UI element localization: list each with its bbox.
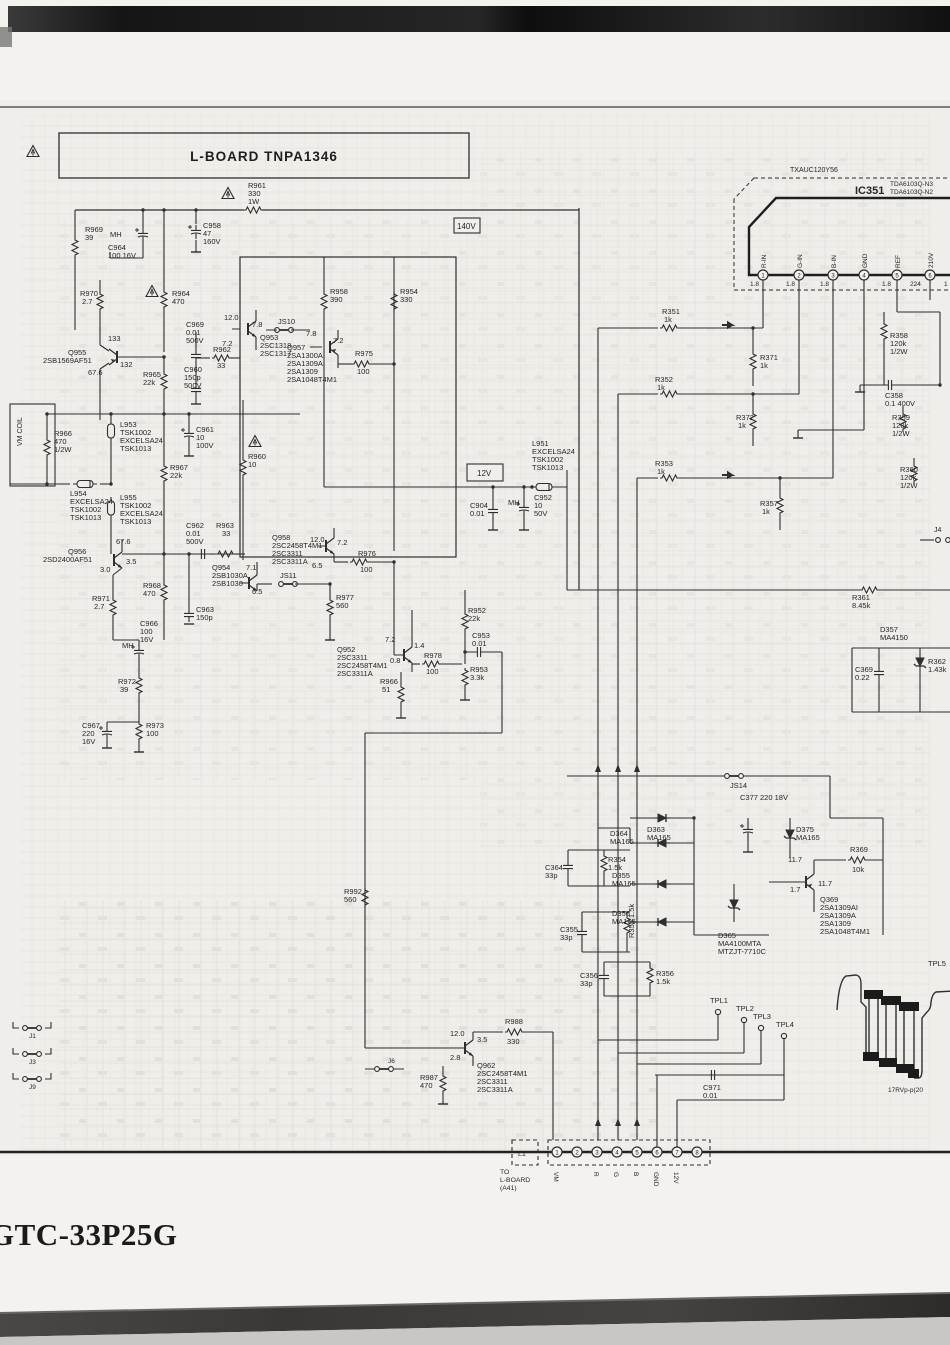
svg-text:J6: J6	[388, 1058, 395, 1065]
svg-text:67.6: 67.6	[88, 368, 103, 377]
svg-text:B: B	[632, 1172, 639, 1176]
svg-text:470: 470	[420, 1081, 433, 1090]
resistor R353	[640, 459, 833, 481]
svg-text:33p: 33p	[560, 933, 573, 942]
svg-text:2SA1048T4M1: 2SA1048T4M1	[820, 927, 870, 936]
svg-text:1.4: 1.4	[414, 641, 424, 650]
pin 2	[572, 1147, 582, 1157]
arrow on R351 wire	[722, 323, 732, 328]
pin 7 12V	[672, 1147, 682, 1184]
resistor R966b 51	[380, 672, 406, 718]
svg-text:22k: 22k	[143, 378, 155, 387]
inductor L951	[530, 439, 575, 491]
svg-text:1.8: 1.8	[882, 281, 891, 288]
svg-text:MA165: MA165	[796, 833, 820, 842]
svg-text:2SC3311A: 2SC3311A	[477, 1085, 513, 1094]
capacitor C355	[560, 912, 630, 952]
svg-text:TSK1013: TSK1013	[120, 444, 151, 453]
warning triangle mid	[249, 436, 261, 447]
svg-text:1/2W: 1/2W	[892, 429, 910, 438]
capacitor C358	[860, 380, 942, 408]
wire right box corner	[567, 470, 950, 590]
svg-text:160V: 160V	[203, 237, 221, 246]
svg-text:(A41): (A41)	[500, 1185, 517, 1192]
svg-text:22k: 22k	[468, 614, 480, 623]
resistor R355	[624, 904, 636, 952]
svg-text:500V: 500V	[186, 336, 204, 345]
wire upper box	[240, 257, 456, 557]
resistor R964	[161, 208, 190, 352]
svg-text:TDA6103Q-N2: TDA6103Q-N2	[890, 189, 933, 196]
wire pin7 up	[677, 1075, 784, 1147]
connector L1 box	[512, 1140, 538, 1165]
transistor Q957	[287, 330, 343, 384]
wire Q952 base vertical	[393, 562, 395, 655]
pin 2	[786, 254, 804, 288]
capacitor C369	[855, 648, 884, 712]
svg-text:100 16V: 100 16V	[108, 251, 136, 260]
svg-text:2SB1569AF51: 2SB1569AF51	[43, 356, 92, 365]
svg-text:TPL4: TPL4	[776, 1020, 794, 1029]
pin 4	[859, 253, 869, 280]
svg-text:MTZJT-7710C: MTZJT-7710C	[718, 947, 767, 956]
resistor R356	[647, 962, 674, 996]
test point TPL4	[776, 1020, 794, 1075]
svg-text:1.7: 1.7	[790, 885, 800, 894]
inductor L955	[108, 493, 163, 551]
diode D364	[598, 828, 694, 847]
svg-text:TXAUC120Y56: TXAUC120Y56	[790, 167, 838, 174]
svg-text:1W: 1W	[248, 197, 260, 206]
ground pin4	[793, 430, 803, 438]
wire node rail y484	[10, 483, 111, 485]
resistor R354	[601, 850, 626, 886]
svg-text:1.8: 1.8	[750, 281, 759, 288]
svg-text:1k: 1k	[657, 467, 665, 476]
svg-text:100: 100	[357, 367, 370, 376]
svg-text:12V: 12V	[477, 469, 492, 478]
schematic top frame line	[0, 106, 950, 108]
wire left rail drop	[74, 210, 76, 330]
resistor R962	[196, 345, 240, 370]
svg-text:1.8: 1.8	[786, 281, 795, 288]
svg-text:R355 1.5k: R355 1.5k	[627, 904, 636, 938]
jumper JS11	[257, 571, 330, 586]
capacitor C961	[181, 412, 214, 456]
pin 1 VM	[552, 1147, 562, 1182]
wire pin3 drop	[832, 280, 834, 478]
svg-text:2SA1048T4M1: 2SA1048T4M1	[287, 375, 337, 384]
svg-text:67.6: 67.6	[116, 537, 131, 546]
svg-text:7.8: 7.8	[252, 320, 262, 329]
arrow R line	[595, 764, 601, 772]
resistor R992	[344, 878, 368, 908]
svg-text:TSK1013: TSK1013	[532, 463, 563, 472]
svg-text:100: 100	[426, 667, 439, 676]
capacitor C967	[82, 721, 139, 748]
wire TPL4 bus	[655, 1074, 784, 1076]
svg-text:1k: 1k	[664, 315, 672, 324]
svg-text:330: 330	[507, 1037, 520, 1046]
arrow on R353 wire	[722, 473, 732, 478]
capacitor C904	[470, 485, 498, 530]
wire mid emitter rail y554	[196, 553, 240, 555]
resistor R358	[881, 312, 908, 385]
pin 3	[820, 255, 838, 288]
arrow B line	[634, 764, 640, 772]
svg-text:16V: 16V	[82, 737, 95, 746]
svg-text:G-IN: G-IN	[797, 254, 804, 268]
transistor Q962	[443, 1029, 527, 1094]
svg-text:12.0: 12.0	[450, 1029, 465, 1038]
svg-text:GND: GND	[652, 1172, 659, 1187]
svg-text:500V: 500V	[184, 381, 202, 390]
svg-text:39: 39	[120, 685, 128, 694]
warning triangle near R964	[146, 286, 158, 297]
capacitor C953	[463, 631, 502, 657]
svg-text:2.8: 2.8	[450, 1053, 460, 1062]
label 140V	[454, 218, 480, 233]
svg-text:MH: MH	[508, 498, 520, 507]
svg-text:12.0: 12.0	[224, 313, 239, 322]
resistor R369	[814, 845, 883, 874]
svg-text:1k: 1k	[760, 361, 768, 370]
svg-text:R369: R369	[850, 845, 868, 854]
wire dmatrix box	[694, 776, 883, 935]
resistor R954	[391, 287, 418, 312]
svg-text:1/2W: 1/2W	[900, 481, 918, 490]
svg-text:JS14: JS14	[730, 781, 747, 790]
wire R988 to pin1	[552, 1032, 554, 1140]
svg-text:R975: R975	[355, 349, 373, 358]
svg-text:C377: C377	[740, 793, 758, 802]
svg-text:0.01: 0.01	[470, 509, 485, 518]
svg-text:2SB1030: 2SB1030	[212, 579, 243, 588]
label 12V	[467, 464, 503, 481]
jumper J1	[13, 1022, 51, 1040]
transistor Q952	[337, 610, 424, 678]
bottom dark band	[0, 1293, 950, 1345]
svg-text:2SC3311A: 2SC3311A	[272, 557, 308, 566]
svg-text:7.1: 7.1	[246, 563, 256, 572]
top dark band	[8, 6, 950, 32]
wire rail vertical x324	[323, 330, 325, 487]
svg-text:2SC3311A: 2SC3311A	[337, 669, 373, 678]
svg-text:3.0: 3.0	[100, 565, 110, 574]
svg-text:R: R	[592, 1172, 599, 1177]
svg-text:33: 33	[222, 529, 230, 538]
ground C358	[855, 385, 865, 392]
svg-text:2.7: 2.7	[94, 602, 104, 611]
svg-text:0.01: 0.01	[703, 1091, 718, 1100]
resistor R371	[750, 326, 778, 386]
transistor Q369	[769, 855, 870, 936]
capacitor C963	[184, 552, 214, 624]
svg-text:VM COIL: VM COIL	[17, 417, 24, 446]
svg-text:GTC-33P25G: GTC-33P25G	[0, 1217, 178, 1252]
svg-text:J4: J4	[934, 527, 942, 534]
svg-text:L-BOARD TNPA1346: L-BOARD TNPA1346	[190, 149, 338, 164]
jumper J3	[13, 1048, 51, 1066]
svg-text:133: 133	[108, 334, 121, 343]
resistor R952	[462, 590, 486, 664]
resistor R987	[420, 1048, 448, 1104]
wire pin6 up	[656, 1075, 658, 1147]
svg-text:7.2: 7.2	[337, 538, 347, 547]
svg-text:R978: R978	[424, 651, 442, 660]
svg-text:51: 51	[382, 685, 390, 694]
svg-text:0.01: 0.01	[472, 639, 487, 648]
resistor R360	[900, 458, 918, 490]
svg-text:IC351: IC351	[855, 185, 884, 197]
bottom thick frame line	[0, 1151, 950, 1154]
connector dashed box	[548, 1140, 710, 1165]
svg-text:10: 10	[248, 460, 256, 469]
wire pin1 drop	[762, 280, 764, 328]
warning triangle near R961	[222, 188, 234, 199]
capacitor C969	[186, 320, 204, 363]
resistor R975	[338, 349, 396, 376]
resistor R359	[892, 406, 910, 438]
svg-text:7.8: 7.8	[306, 329, 316, 338]
capacitor C960	[184, 363, 202, 404]
resistor R961	[244, 181, 266, 213]
svg-text:1.43k: 1.43k	[928, 665, 947, 674]
resistor R352	[640, 375, 799, 397]
resistor R958	[321, 257, 348, 330]
inductor L954	[70, 481, 113, 523]
svg-text:1/2W: 1/2W	[890, 347, 908, 356]
svg-text:R976: R976	[358, 549, 376, 558]
waveform trace	[837, 975, 950, 1078]
svg-text:0.22: 0.22	[855, 673, 870, 682]
svg-text:0.1 400V: 0.1 400V	[885, 399, 915, 408]
svg-text:470: 470	[172, 297, 185, 306]
svg-text:50V: 50V	[534, 509, 547, 518]
svg-text:TPL5: TPL5	[928, 959, 946, 968]
resistor R953	[460, 665, 488, 700]
wire pin2 drop	[798, 280, 800, 394]
svg-text:J1: J1	[29, 1033, 36, 1040]
svg-text:G: G	[612, 1172, 619, 1177]
svg-text:R-IN: R-IN	[761, 254, 768, 268]
inductor L953	[108, 412, 163, 485]
diode D357 zener	[880, 625, 947, 712]
svg-text:L-BOARD: L-BOARD	[500, 1177, 530, 1184]
svg-text:33p: 33p	[580, 979, 593, 988]
wire TPL1 bus	[598, 1039, 718, 1041]
svg-text:R988: R988	[505, 1017, 523, 1026]
svg-text:3.5: 3.5	[477, 1035, 487, 1044]
svg-text:1.5k: 1.5k	[656, 977, 670, 986]
svg-text:3.5: 3.5	[126, 557, 136, 566]
capacitor C364	[545, 850, 630, 886]
svg-text:39: 39	[85, 233, 93, 242]
svg-text:VM: VM	[552, 1172, 559, 1182]
pin 8	[692, 1147, 702, 1157]
wire pin6 drop	[929, 280, 931, 300]
pin 5	[882, 255, 902, 288]
svg-text:6.5: 6.5	[312, 561, 322, 570]
wire inner vertical	[393, 257, 395, 551]
wire right rail vertical	[578, 208, 580, 590]
warning triangle top-left	[27, 146, 39, 157]
svg-text:470: 470	[143, 589, 156, 598]
arrow R line low	[595, 1118, 601, 1126]
resistor R963	[210, 521, 245, 557]
wire q956 collector rail	[122, 553, 196, 555]
transistor Q955	[43, 334, 164, 420]
svg-text:224: 224	[910, 281, 921, 288]
resistor R972	[118, 668, 142, 722]
svg-text:TPL1: TPL1	[710, 996, 728, 1005]
svg-text:390: 390	[330, 295, 343, 304]
capacitor C971	[655, 1070, 784, 1100]
svg-text:TDA6103Q-N3: TDA6103Q-N3	[890, 181, 933, 188]
pin 6 GND	[652, 1147, 662, 1187]
svg-text:MH: MH	[110, 230, 122, 239]
test point TPL2	[736, 1004, 754, 1053]
svg-text:150p: 150p	[196, 613, 213, 622]
svg-text:100V: 100V	[196, 441, 214, 450]
pin 3 R	[592, 1147, 602, 1177]
svg-text:220 18V: 220 18V	[760, 793, 788, 802]
svg-text:J9: J9	[29, 1084, 36, 1091]
svg-text:JS11: JS11	[280, 571, 297, 580]
VM COIL box	[10, 404, 55, 486]
jumper J9	[13, 1073, 51, 1091]
pin 5 B	[632, 1147, 642, 1176]
svg-text:100: 100	[146, 729, 159, 738]
svg-text:MA4150: MA4150	[880, 633, 908, 642]
op-amp IC351 body	[749, 198, 950, 275]
transistor Q954	[212, 562, 262, 596]
svg-text:MA165: MA165	[647, 833, 671, 842]
capacitor C962	[186, 521, 210, 559]
wire long vertical to Q962	[364, 733, 366, 1048]
svg-text:1k: 1k	[657, 383, 665, 392]
jumper J4	[920, 527, 950, 542]
pin 1	[750, 254, 768, 288]
wire C953 loop	[365, 652, 502, 733]
svg-text:330: 330	[400, 295, 413, 304]
wire B drive vertical	[637, 478, 640, 1140]
svg-text:500V: 500V	[186, 537, 204, 546]
svg-text:1/2W: 1/2W	[54, 445, 72, 454]
svg-text:12.0: 12.0	[310, 535, 325, 544]
svg-text:6.5: 6.5	[252, 587, 262, 596]
resistor R978	[412, 651, 462, 676]
svg-text:B-IN: B-IN	[831, 255, 838, 268]
arrow G line low	[615, 1118, 621, 1126]
svg-text:TPL2: TPL2	[736, 1004, 754, 1013]
svg-text:16V: 16V	[140, 635, 153, 644]
svg-text:100: 100	[360, 565, 373, 574]
svg-text:22k: 22k	[170, 471, 182, 480]
svg-text:11.7: 11.7	[788, 855, 802, 864]
svg-text:1k: 1k	[762, 507, 770, 516]
diode D355	[612, 871, 694, 888]
capacitor C964	[108, 208, 148, 260]
svg-text:11.7: 11.7	[818, 879, 832, 888]
wire R drive vertical	[598, 328, 640, 1140]
wire rail y487	[324, 486, 567, 488]
wire TPL3 bus	[637, 1063, 761, 1065]
wire D357 box	[852, 648, 950, 712]
resistor R960	[240, 400, 266, 560]
svg-text:TPL3: TPL3	[753, 1012, 771, 1021]
resistor R977	[325, 582, 354, 640]
resistor R965	[143, 355, 167, 414]
svg-text:MA165: MA165	[612, 879, 636, 888]
svg-text:560: 560	[336, 601, 349, 610]
svg-text:12V: 12V	[672, 1172, 679, 1184]
resistor R970	[80, 280, 103, 345]
svg-text:TO: TO	[500, 1169, 509, 1176]
svg-text:7.2: 7.2	[333, 336, 343, 345]
resistor R968	[143, 552, 167, 640]
svg-text:2SD2400AF51: 2SD2400AF51	[43, 555, 92, 564]
svg-text:REF: REF	[895, 255, 902, 268]
svg-text:MH: MH	[122, 641, 134, 650]
title box L-BOARD TNPA1346	[59, 133, 469, 178]
svg-text:132: 132	[120, 360, 133, 369]
capacitor C356	[580, 962, 650, 996]
diode D375	[784, 818, 820, 858]
test point TPL3	[753, 1012, 771, 1064]
svg-text:2.7: 2.7	[82, 297, 92, 306]
resistor R967	[161, 412, 188, 554]
capacitor C958	[188, 208, 221, 252]
diode D363	[630, 814, 696, 842]
resistor R969	[72, 225, 103, 258]
pin 4 G	[612, 1147, 622, 1177]
resistor R988	[473, 1017, 553, 1046]
jumper J6	[365, 1058, 404, 1071]
wire G drive vertical	[618, 394, 640, 1140]
svg-text:33: 33	[217, 361, 225, 370]
svg-text:0.8: 0.8	[390, 656, 400, 665]
capacitor C377	[740, 793, 788, 852]
resistor R361	[852, 587, 879, 610]
svg-text:7.2: 7.2	[222, 339, 232, 348]
arrow B line low	[634, 1118, 640, 1126]
svg-text:1k: 1k	[738, 421, 746, 430]
jumper JS10	[266, 317, 316, 338]
svg-text:10k: 10k	[852, 865, 864, 874]
wire Q962 base from long vertical	[365, 1047, 443, 1049]
svg-text:560: 560	[344, 895, 357, 904]
svg-text:JS10: JS10	[278, 317, 295, 326]
capacitor C966	[113, 619, 158, 668]
wire top 140V rail	[75, 209, 579, 211]
resistor R372	[736, 392, 756, 446]
resistor R976	[334, 549, 396, 574]
svg-text:1.5k: 1.5k	[608, 863, 622, 872]
svg-text:L1: L1	[518, 1151, 526, 1158]
svg-text:TSK1013: TSK1013	[120, 517, 151, 526]
jumper JS14	[567, 774, 830, 790]
svg-text:17RVp-p(20: 17RVp-p(20	[888, 1087, 923, 1094]
capacitor C952	[508, 485, 552, 530]
test point TPL1	[710, 996, 728, 1040]
svg-text:3.3k: 3.3k	[470, 673, 484, 682]
transistor Q956	[43, 537, 136, 598]
diode D356	[612, 909, 694, 926]
arrow G line	[615, 764, 621, 772]
svg-text:1: 1	[944, 281, 948, 288]
transistor Q953	[222, 310, 291, 358]
